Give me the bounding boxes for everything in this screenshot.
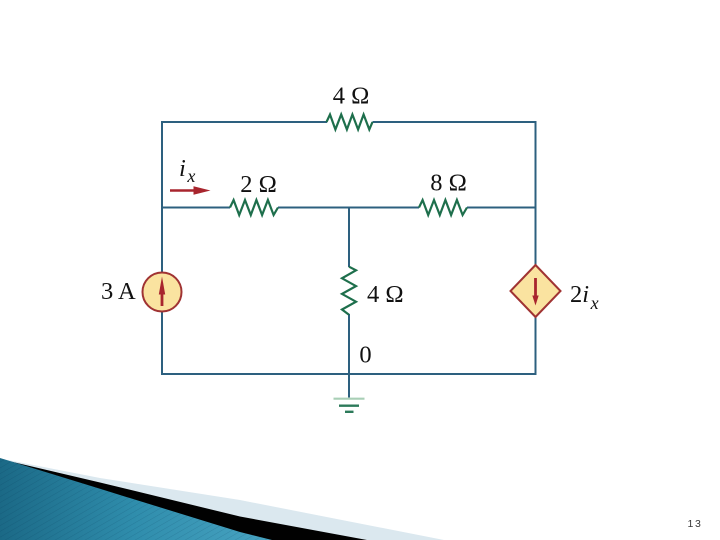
wire: centre vertical upper segment bbox=[348, 207, 350, 268]
decorative swoosh (teal band) bbox=[0, 458, 272, 540]
dependent current source D1 (2ix, diamond) bbox=[511, 265, 561, 317]
svg-text:4 Ω: 4 Ω bbox=[333, 83, 370, 110]
resistor R1 (4 ohm, top branch) bbox=[327, 115, 373, 130]
arrow inside dependent source bbox=[534, 278, 537, 297]
decorative swoosh (pale band) bbox=[0, 459, 444, 540]
ground stem bbox=[348, 374, 350, 398]
current source I1 (3 A, circle) bbox=[143, 273, 182, 312]
wire: middle horizontal (left node to 2-ohm resistor) bbox=[161, 207, 230, 209]
wire: right vertical lower segment bbox=[535, 316, 537, 375]
ix red arrow bbox=[170, 189, 196, 192]
resistor R3 (8 ohm, middle branch) bbox=[419, 200, 467, 215]
svg-text:3 A: 3 A bbox=[101, 278, 136, 305]
svg-text:2ix: 2ix bbox=[570, 281, 599, 313]
svg-text:8 Ω: 8 Ω bbox=[430, 170, 467, 197]
wire: left vertical upper segment bbox=[161, 121, 163, 273]
svg-text:2 Ω: 2 Ω bbox=[240, 171, 277, 198]
wire: top horizontal (left of 4-ohm resistor) bbox=[161, 121, 327, 123]
wire: middle horizontal (8-ohm resistor to right node) bbox=[467, 207, 537, 209]
wire: bottom horizontal bbox=[161, 373, 537, 375]
svg-text:13: 13 bbox=[688, 518, 702, 530]
svg-text:0: 0 bbox=[359, 342, 371, 369]
wire: left vertical lower segment bbox=[161, 311, 163, 375]
ground symbol bbox=[334, 398, 365, 400]
resistor R4 (4 ohm, centre vertical branch) bbox=[342, 267, 356, 315]
wire: right vertical upper segment bbox=[535, 121, 537, 266]
resistor R2 (2 ohm, middle branch) bbox=[230, 200, 278, 215]
wire: centre vertical lower segment bbox=[348, 314, 350, 375]
svg-text:ix: ix bbox=[179, 155, 195, 186]
svg-text:4 Ω: 4 Ω bbox=[367, 281, 404, 308]
wire: middle horizontal (2-ohm to 8-ohm through centre junction) bbox=[278, 207, 419, 209]
arrow inside 3 A source bbox=[161, 293, 164, 306]
wire: top horizontal (right of 4-ohm resistor) bbox=[373, 121, 537, 123]
decorative swoosh (black band) bbox=[0, 459, 367, 540]
